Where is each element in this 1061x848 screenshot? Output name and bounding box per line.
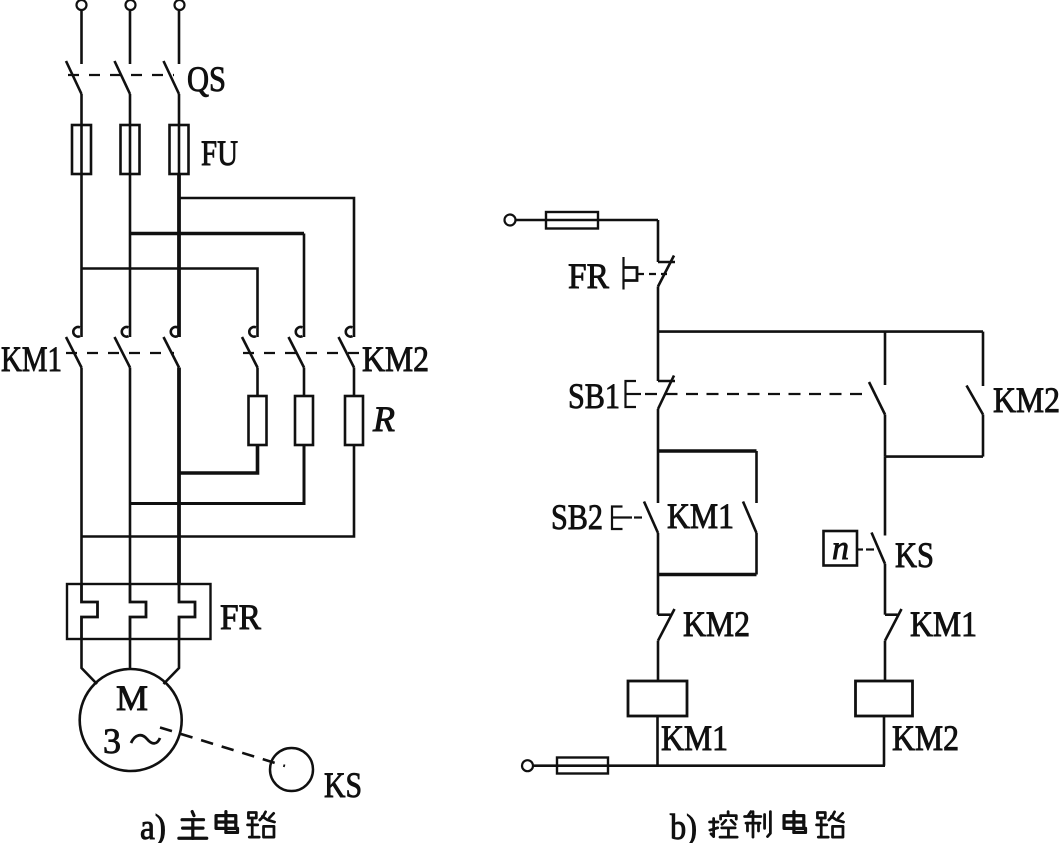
coil KM2 — [856, 681, 913, 716]
terminal L2 — [126, 0, 136, 10]
svg-text:KM2: KM2 — [683, 604, 750, 644]
svg-text:FR: FR — [220, 597, 261, 637]
caption hanzi zhu (main) — [179, 812, 207, 839]
control top terminal — [505, 215, 516, 226]
svg-text:KM2: KM2 — [993, 380, 1060, 420]
fuse FU 3 — [170, 125, 189, 174]
wire L2 FU to KM1 contact — [129, 174, 132, 337]
branch top wire (thick) — [658, 449, 757, 453]
wire corner down to FR contact — [657, 220, 660, 262]
FR heater element 2 — [130, 584, 146, 639]
FR heater element 1 — [82, 584, 98, 639]
SB2 operator bracket — [612, 507, 623, 530]
contact SB1 NO (linked) — [869, 382, 885, 415]
contactor KM2 main contact 3 — [346, 327, 353, 337]
button SB1 NC contact — [658, 380, 675, 383]
contact KS NO — [872, 533, 886, 564]
resistor R3 — [345, 396, 363, 445]
switch QS pole 2 blade — [115, 61, 131, 94]
rail to KS — [884, 457, 887, 536]
contact KM1 auxiliary NO — [743, 502, 757, 534]
rail KM1 coil to bottom bus — [656, 716, 659, 766]
wire L1 QS to FU — [80, 94, 83, 174]
branch bottom wire (thick) — [658, 573, 757, 577]
svg-text:a): a) — [140, 807, 166, 843]
svg-text:n: n — [832, 530, 849, 567]
terminal L1 — [77, 0, 87, 10]
contactor KM1 main contact 3 — [171, 327, 178, 337]
wire KM2 pole2 to resistor — [303, 368, 306, 397]
contactor KM2 linkage (dashed) — [243, 352, 360, 354]
wire resistor2 to L2 — [130, 445, 304, 504]
svg-text:M: M — [116, 678, 148, 718]
caption hanzi lu (control) — [817, 812, 844, 837]
control top wire — [516, 219, 659, 222]
rail to KM1 coil — [657, 641, 660, 681]
motor tilde — [131, 735, 160, 743]
wire L2 QS to FU — [129, 94, 132, 174]
SB1 operator bracket — [626, 381, 637, 407]
contact KM1 NC interlock — [885, 613, 898, 616]
contactor KM1 main contact 1 — [73, 327, 80, 337]
svg-text:SB2: SB2 — [551, 497, 603, 537]
control fuse FU bottom — [557, 758, 608, 774]
speed relay box n — [824, 531, 858, 566]
wire L1 top — [80, 11, 83, 64]
svg-text:KS: KS — [324, 765, 362, 805]
caption hanzi zhi (control) — [745, 812, 771, 838]
contactor KM1 linkage (dashed) — [66, 352, 174, 354]
caption hanzi kong (control) — [710, 812, 738, 838]
svg-text:KM2: KM2 — [362, 339, 429, 379]
wire KM1 pole1 to FR — [80, 368, 83, 585]
wire FR to motor 1 — [82, 639, 98, 684]
switch QS linkage (dashed) — [68, 74, 174, 76]
control top bus — [658, 330, 983, 333]
wire crossover L1 to KM2 pole 1 — [82, 269, 258, 338]
svg-text:KM1: KM1 — [667, 496, 734, 536]
button SB2 NO contact — [644, 502, 658, 534]
svg-text:QS: QS — [187, 59, 226, 99]
svg-text:KM1: KM1 — [661, 718, 728, 758]
bottom terminal — [522, 760, 533, 771]
svg-text:FU: FU — [201, 133, 238, 173]
fuse FU 1 — [72, 125, 91, 174]
wire KM2 pole1 to resistor — [256, 368, 259, 397]
caption hanzi dian (control) — [784, 812, 805, 833]
svg-text:KM1: KM1 — [910, 604, 977, 644]
wire FR to motor 3 — [164, 639, 180, 684]
switch QS pole 1 blade — [66, 61, 82, 94]
SB1 linkage dashed to KM2 branch — [645, 393, 869, 395]
wire L3 FU to KM1 contact (thick) — [177, 174, 181, 337]
svg-text:SB1: SB1 — [568, 376, 620, 416]
motor M circle — [80, 669, 182, 771]
caption hanzi dian (main) — [216, 812, 237, 833]
caption hanzi lu (main) — [248, 812, 275, 837]
svg-text:3: 3 — [103, 721, 121, 761]
thermal relay FR box — [67, 584, 211, 639]
rails below SB2 — [657, 533, 660, 615]
svg-text:KM1: KM1 — [1, 339, 62, 379]
wire L1 FU to KM1 contact — [80, 174, 83, 337]
svg-text:KM2: KM2 — [892, 718, 959, 758]
svg-text:KS: KS — [895, 535, 934, 575]
wire L3 QS to FU — [178, 94, 181, 174]
FR trip head bracket — [622, 257, 624, 290]
wire KM2 pole3 to resistor — [353, 368, 356, 397]
svg-text:b): b) — [670, 807, 697, 843]
fuse FU 2 — [121, 125, 140, 174]
wire KM1 pole2 to FR — [129, 368, 132, 585]
switch QS pole 3 blade — [164, 61, 180, 94]
wire FR to motor 2 — [129, 639, 132, 669]
svg-text:FR: FR — [568, 256, 609, 296]
terminal L3 — [175, 0, 185, 10]
contactor KM2 main contact 1 — [249, 327, 256, 337]
wire L2 top — [129, 11, 132, 64]
wire resistor3 to L1 — [82, 445, 355, 537]
parallel join wire — [885, 455, 983, 458]
right branch: SB1 NO vertical — [884, 332, 887, 385]
svg-text:R: R — [372, 399, 395, 439]
wire crossover L3 to KM2 pole 3 — [179, 198, 354, 337]
resistor R1 — [249, 396, 267, 445]
resistor R2 — [295, 396, 313, 445]
FR heater element 3 — [179, 584, 195, 639]
contact KM2 NC interlock — [658, 613, 671, 616]
shaft link dashed to KS — [160, 728, 285, 767]
coil KM1 — [628, 681, 687, 716]
rail SB1 to SB2 — [657, 409, 660, 503]
wire KM1 pole3 to FR (thick) — [177, 368, 181, 585]
contactor KM1 main contact 2 — [122, 327, 129, 337]
FR NC contact (control) — [658, 261, 675, 264]
contactor KM2 main contact 2 — [296, 327, 303, 337]
control fuse FU top — [546, 212, 598, 229]
wire crossover L2 to KM2 pole 2 (thick) — [130, 232, 304, 236]
speed switch KS circle — [270, 748, 313, 791]
wire L3 top — [178, 11, 181, 64]
bottom bus — [533, 764, 885, 767]
contact KM2 self-lock NO — [982, 332, 985, 386]
left rail FR to SB1 — [657, 287, 660, 382]
wire resistor1 to L3 (thick) — [179, 445, 258, 473]
